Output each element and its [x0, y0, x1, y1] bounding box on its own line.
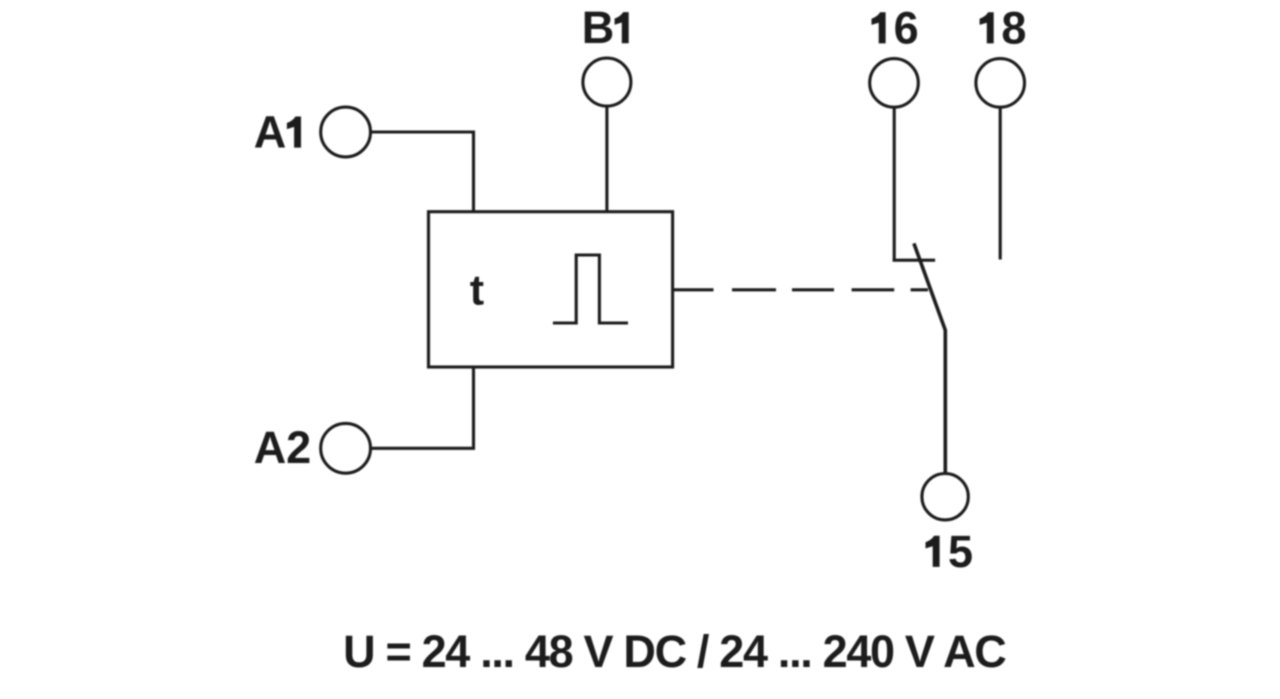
contact blade and wire to 15: [914, 243, 945, 473]
dashed actuation line: [674, 288, 928, 291]
svg-text:B: B: [582, 2, 615, 53]
wire A2 to box: [371, 367, 474, 448]
wire 16 to contact: [893, 107, 896, 262]
label 16: [872, 2, 919, 53]
svg-text:U = 24 ... 48 V DC / 24 ... 24: U = 24 ... 48 V DC / 24 ... 240 V AC: [343, 626, 1006, 677]
svg-text:t: t: [470, 266, 484, 314]
wire 18: [999, 107, 1002, 260]
label 18: [980, 2, 1027, 53]
svg-text:6: 6: [894, 2, 919, 53]
terminal B1: [583, 58, 631, 106]
wire B1 to box: [605, 107, 608, 212]
contact fixed tick: [893, 259, 935, 262]
svg-text:5: 5: [948, 526, 973, 577]
label 15: [926, 526, 974, 577]
terminal 16: [870, 59, 919, 108]
terminal A2: [321, 423, 371, 473]
wire A1 to box: [371, 132, 474, 212]
terminal 15: [922, 474, 968, 520]
terminal 18: [976, 59, 1025, 108]
terminal A1: [321, 107, 371, 157]
svg-text:A2: A2: [254, 422, 312, 473]
label B1: [582, 2, 629, 53]
timer box U1: [429, 212, 673, 367]
label A1: [254, 107, 301, 158]
svg-text:A: A: [254, 107, 287, 158]
pulse symbol: [553, 255, 628, 323]
svg-text:8: 8: [1001, 2, 1026, 53]
